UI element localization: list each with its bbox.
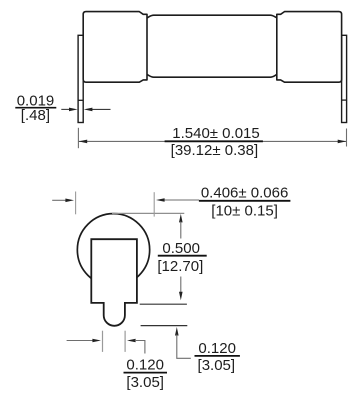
dim 0.120 center fraction bar — [124, 372, 168, 374]
dim 0.120 right fraction bar — [195, 355, 240, 357]
dim 0.406 left arrow — [52, 199, 66, 201]
dim 0.406 extension line right — [153, 192, 155, 216]
dim 0.019 fraction bar — [15, 107, 56, 109]
dim 0.406 extension line left — [75, 192, 77, 215]
dim 0.500 text — [157, 240, 203, 275]
left end cap — [83, 12, 147, 83]
dim 0.120 center extension line left — [102, 331, 104, 352]
left blade tick — [78, 99, 83, 101]
dim 0.019 text — [17, 92, 55, 124]
dim 1.540 fraction bar — [165, 140, 263, 142]
svg-text:[3.05]: [3.05] — [198, 357, 236, 374]
dim 0.120 right text — [198, 340, 236, 374]
dim 0.120 right: up arrow and leader — [175, 327, 179, 336]
svg-text:[10± 0.15]: [10± 0.15] — [211, 202, 278, 219]
dim 0.406 fraction bar — [199, 200, 291, 202]
svg-text:[.48]: [.48] — [21, 107, 50, 124]
dim 0.406 text — [201, 185, 288, 220]
dim 0.120 center left arrow — [67, 340, 93, 342]
svg-text:0.120: 0.120 — [198, 340, 236, 357]
end view: fuse body circle — [77, 214, 149, 286]
dim 0.500 bottom arrow — [180, 277, 182, 293]
reference line A (plate bottom extension) — [140, 303, 187, 305]
dim 0.406 dimension leader — [164, 199, 200, 201]
svg-text:[39.12± 0.38]: [39.12± 0.38] — [171, 142, 258, 159]
dim 0.500 top arrow — [179, 214, 183, 223]
reference line B (tab bottom extension) — [141, 325, 188, 327]
dim 1.540 dimension line — [78, 140, 346, 142]
svg-text:1.540± 0.015: 1.540± 0.015 — [172, 125, 259, 142]
dim 0.120 center extension line right — [124, 331, 126, 352]
svg-text:0.406± 0.066: 0.406± 0.066 — [201, 185, 288, 202]
dim 1.540 extension line right — [346, 129, 348, 147]
dim 0.120 center right arrow and leader — [127, 339, 136, 343]
fuse side view: right blade lead — [342, 35, 347, 122]
right blade tick — [342, 99, 347, 101]
dim 0.500 fraction bar — [158, 255, 207, 257]
dim 0.019 arrow right — [92, 108, 111, 110]
svg-text:0.120: 0.120 — [126, 356, 164, 373]
end view: blade plate with bottom tab — [91, 239, 137, 326]
dim 0.120 center text — [126, 356, 164, 391]
fuse body (center barrel) — [147, 15, 277, 77]
dim 1.540 extension line left — [77, 128, 79, 148]
fuse side view: left blade lead — [78, 35, 83, 122]
circle top tangent reference line — [112, 212, 184, 214]
svg-text:[3.05]: [3.05] — [126, 374, 164, 391]
dim 0.019 arrow left — [61, 108, 70, 110]
svg-text:0.500: 0.500 — [162, 240, 200, 257]
svg-text:[12.70]: [12.70] — [157, 258, 203, 275]
dim 1.540 text — [171, 125, 260, 159]
right end cap — [277, 12, 342, 83]
